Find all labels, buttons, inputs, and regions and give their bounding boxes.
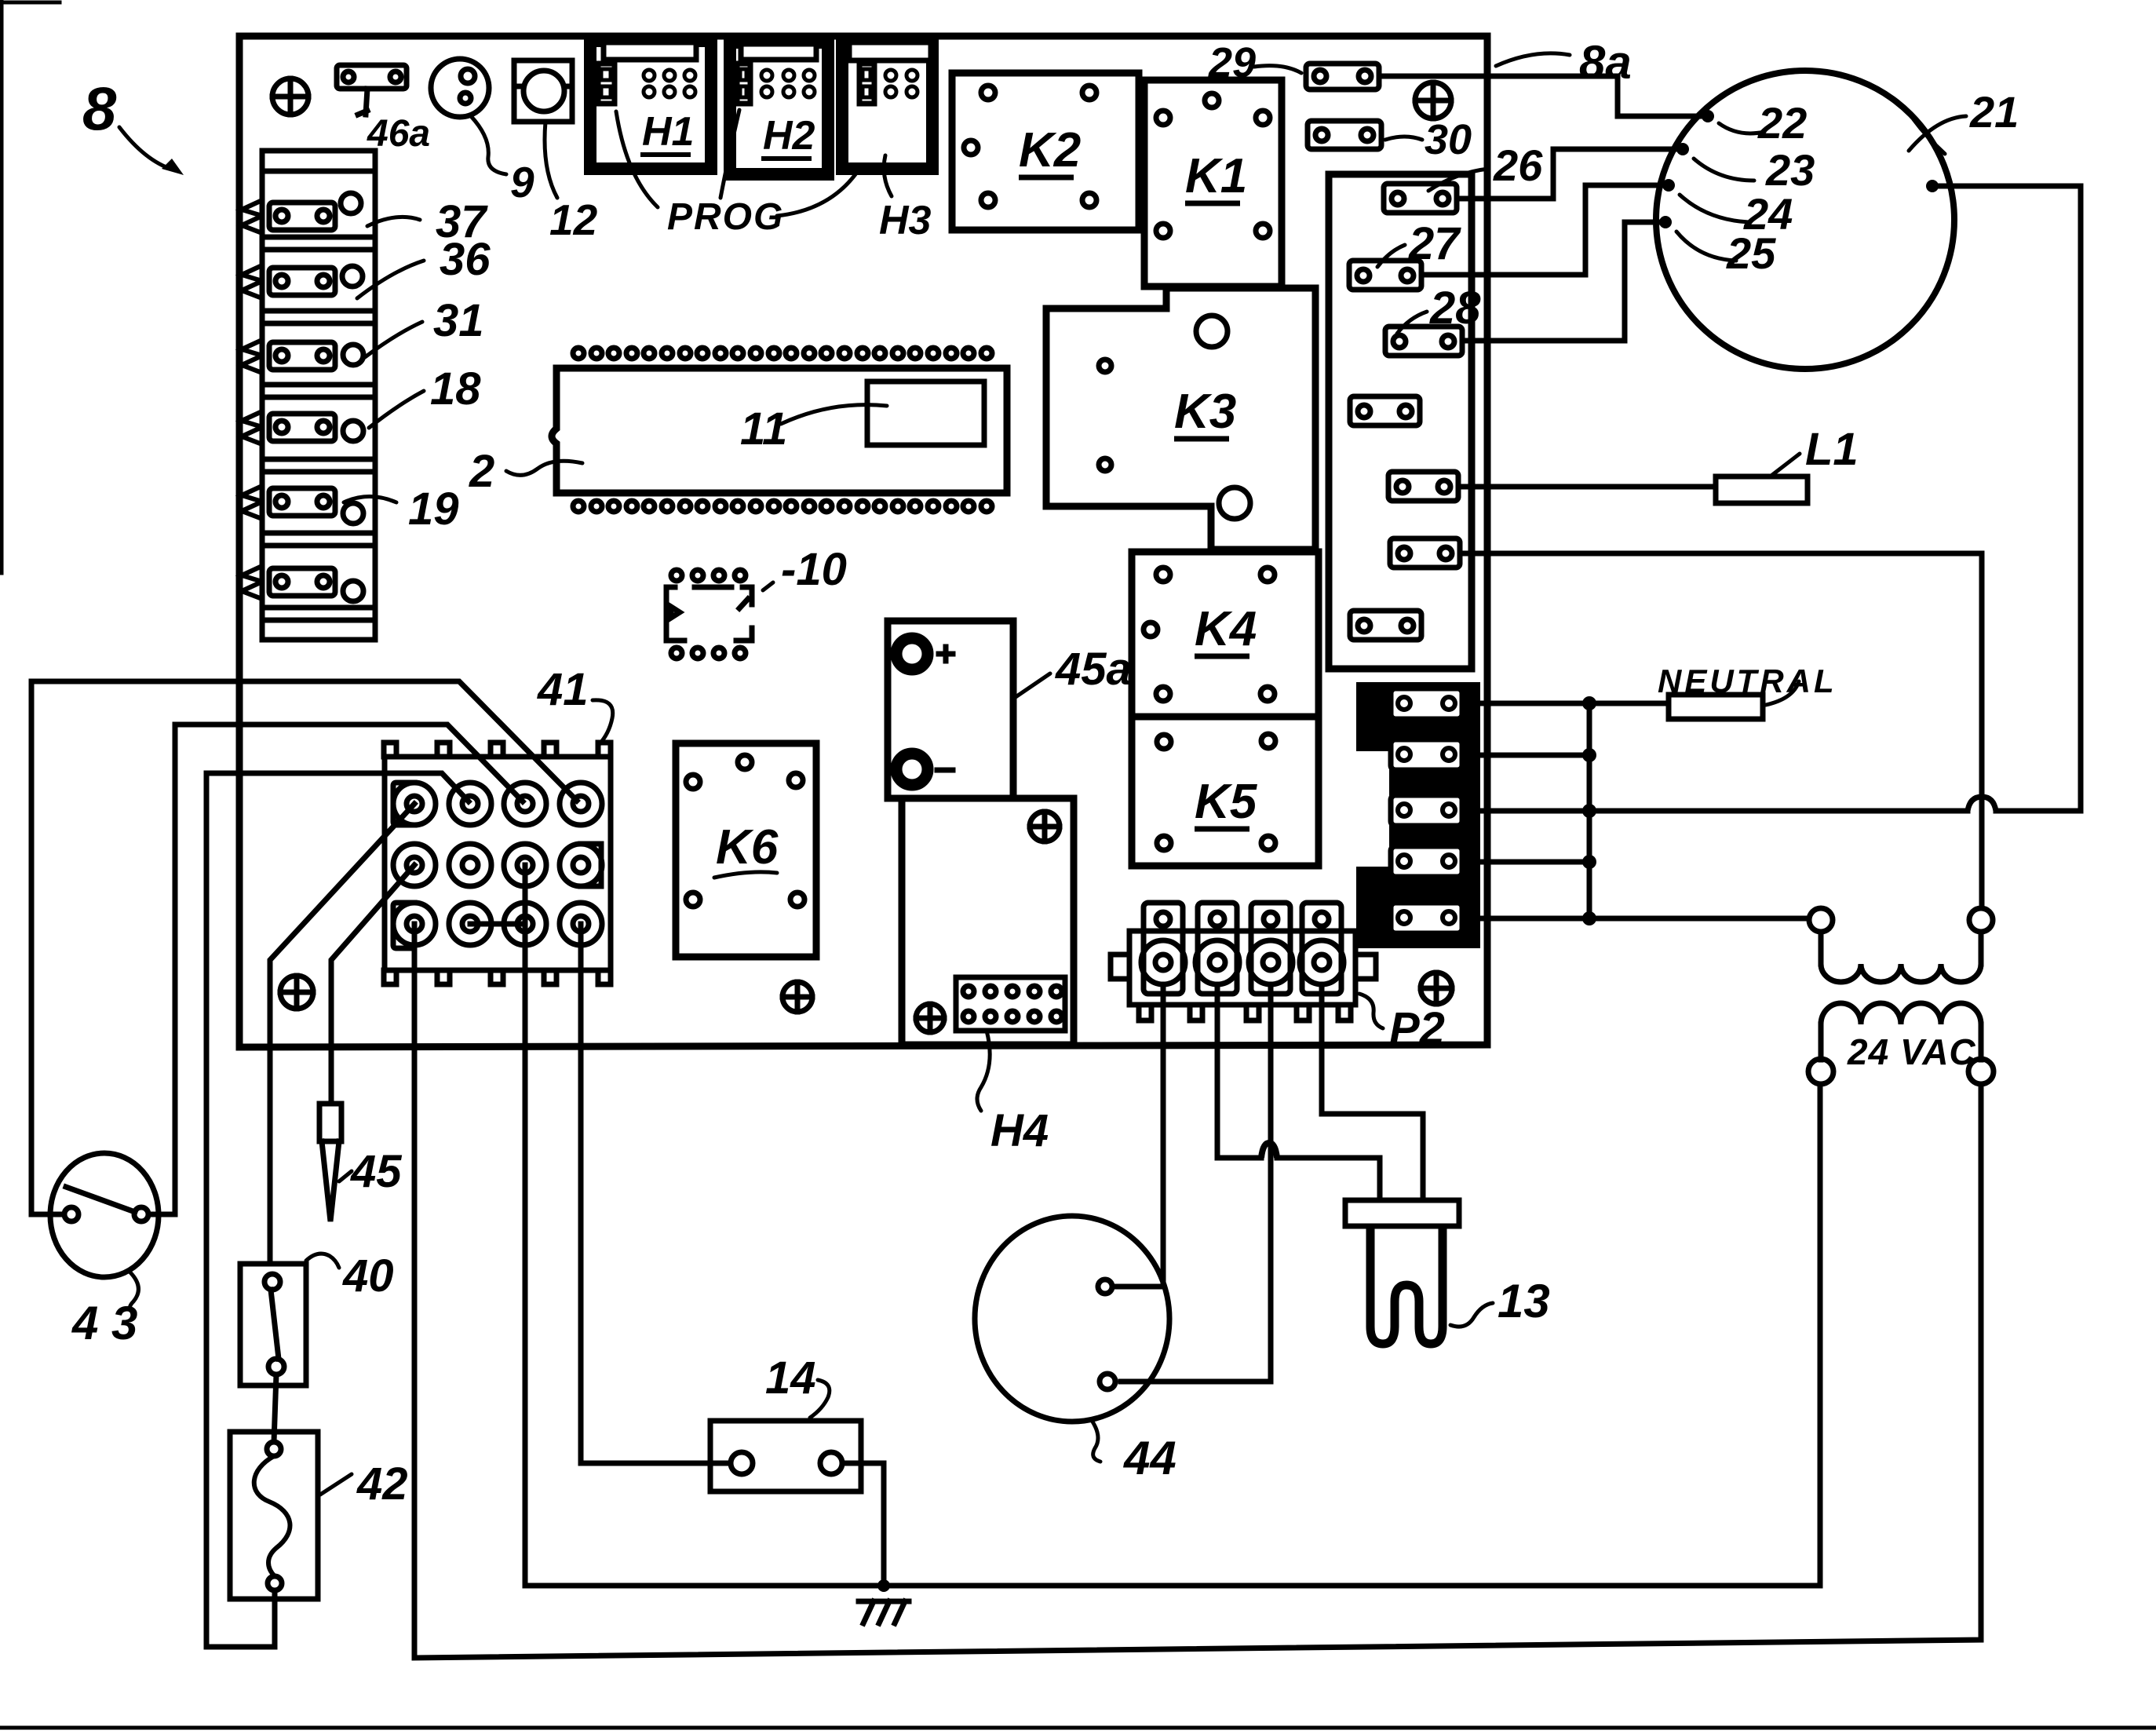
svg-text:NEUTRAL: NEUTRAL — [1658, 663, 1837, 699]
svg-text:K4: K4 — [1195, 602, 1257, 656]
svg-text:11: 11 — [740, 403, 787, 454]
svg-text:14: 14 — [765, 1353, 816, 1404]
svg-text:27: 27 — [1408, 218, 1461, 269]
svg-text:2: 2 — [469, 446, 494, 497]
svg-text:K3: K3 — [1174, 385, 1236, 439]
svg-text:42: 42 — [356, 1458, 408, 1509]
svg-text:P2: P2 — [1389, 1003, 1445, 1054]
svg-text:30: 30 — [1425, 116, 1472, 163]
svg-text:13: 13 — [1498, 1275, 1550, 1327]
svg-text:28: 28 — [1429, 283, 1481, 334]
svg-text:21: 21 — [1969, 87, 2019, 137]
svg-text:H4: H4 — [990, 1105, 1049, 1156]
svg-text:8a: 8a — [1579, 36, 1632, 89]
svg-text:8: 8 — [82, 74, 117, 143]
svg-text:-10: -10 — [781, 544, 847, 595]
svg-text:45: 45 — [350, 1146, 402, 1197]
svg-text:H1: H1 — [642, 109, 694, 155]
svg-text:19: 19 — [408, 484, 459, 535]
svg-text:9: 9 — [510, 158, 534, 206]
svg-text:H2: H2 — [763, 113, 815, 159]
svg-text:29: 29 — [1208, 39, 1256, 86]
svg-text:K2: K2 — [1019, 123, 1081, 177]
svg-text:31: 31 — [433, 295, 484, 346]
svg-text:K6: K6 — [716, 820, 779, 874]
svg-text:K5: K5 — [1195, 775, 1258, 829]
svg-text:12: 12 — [549, 195, 598, 244]
svg-text:26: 26 — [1493, 141, 1543, 190]
svg-text:36: 36 — [440, 234, 491, 285]
svg-text:18: 18 — [430, 363, 481, 414]
svg-text:25: 25 — [1726, 228, 1776, 278]
svg-text:4 3: 4 3 — [71, 1297, 137, 1349]
svg-text:45a: 45a — [1055, 644, 1132, 695]
svg-text:44: 44 — [1123, 1432, 1176, 1484]
svg-text:PROG: PROG — [667, 196, 784, 238]
svg-text:22: 22 — [1757, 98, 1807, 148]
svg-text:H3: H3 — [879, 198, 932, 243]
svg-text:K1: K1 — [1185, 149, 1247, 203]
svg-text:24 VAC: 24 VAC — [1847, 1031, 1976, 1072]
svg-text:41: 41 — [537, 664, 589, 715]
svg-text:23: 23 — [1765, 145, 1815, 195]
svg-text:L1: L1 — [1805, 424, 1859, 475]
svg-text:40: 40 — [342, 1250, 394, 1301]
